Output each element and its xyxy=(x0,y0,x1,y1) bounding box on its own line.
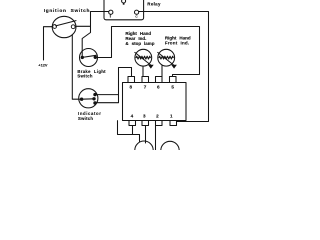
relay terminal top label xyxy=(123,3,125,5)
svg-text:4: 4 xyxy=(131,113,134,118)
indicator switch SW3 xyxy=(79,89,98,108)
pin 1 tab xyxy=(170,121,177,126)
ignition switch SW1 xyxy=(52,16,76,37)
svg-text:1: 1 xyxy=(170,113,173,118)
svg-text:Switch: Switch xyxy=(77,74,92,79)
pin 4 tab xyxy=(129,121,136,126)
wire pin 2 to LH front lamp xyxy=(155,126,157,151)
pin 5 tab xyxy=(170,77,177,83)
pin 6 tab xyxy=(156,77,163,83)
wire indicator bottom contact up and over to pin 8 xyxy=(95,68,132,103)
wire ignition switch to relay xyxy=(75,12,109,27)
wire ignition switch branch to brake light switch xyxy=(82,26,90,56)
pin 7 tab xyxy=(142,77,149,83)
wire brake switch to stop lamp route (pin 5) xyxy=(95,27,199,77)
wire RH front lamp to pin 6 xyxy=(161,65,163,77)
pin 8 tab xyxy=(128,77,135,83)
lamp RH rear ind and stop xyxy=(135,49,154,68)
relay terminal right C xyxy=(135,10,139,14)
svg-text:8: 8 xyxy=(130,84,133,89)
pin 3 tab xyxy=(142,121,149,126)
wire +12V feed to ignition switch xyxy=(44,27,53,60)
svg-text:5: 5 xyxy=(171,84,174,89)
relay terminal top xyxy=(122,0,126,3)
svg-text:3: 3 xyxy=(143,113,146,118)
wire pin 3 to LH rear lamp xyxy=(145,126,147,144)
svg-text:+12V: +12V xyxy=(38,62,48,67)
relay box xyxy=(104,0,144,20)
svg-text:Switch: Switch xyxy=(78,116,93,121)
lamp LH front (clipped) xyxy=(161,141,179,159)
wire indicator top contact to pin 8 xyxy=(95,94,119,96)
flasher unit box xyxy=(123,83,187,121)
svg-text:Relay: Relay xyxy=(147,1,161,6)
svg-text:2: 2 xyxy=(156,113,159,118)
svg-text:6: 6 xyxy=(157,84,160,89)
wire RH rear lamp to pin 7 xyxy=(142,66,144,77)
wire pin 4 loop to box corner xyxy=(118,121,140,142)
svg-text:7: 7 xyxy=(144,84,147,89)
svg-text:& stop lamp: & stop lamp xyxy=(125,41,154,46)
lamp LH rear (clipped) xyxy=(135,141,153,159)
relay terminal left label xyxy=(110,14,111,15)
svg-text:Ignition Switch: Ignition Switch xyxy=(44,8,90,14)
lamp RH front ind xyxy=(158,49,177,68)
brake light switch SW2 xyxy=(80,49,98,67)
relay terminal left xyxy=(109,10,113,14)
pin 2 tab xyxy=(156,121,163,126)
wire relay C to flasher pin 1 xyxy=(139,12,209,122)
svg-text:Front Ind.: Front Ind. xyxy=(165,40,189,45)
wire ignition switch bottom to indicator switch xyxy=(72,35,81,99)
svg-text:C: C xyxy=(135,15,138,19)
